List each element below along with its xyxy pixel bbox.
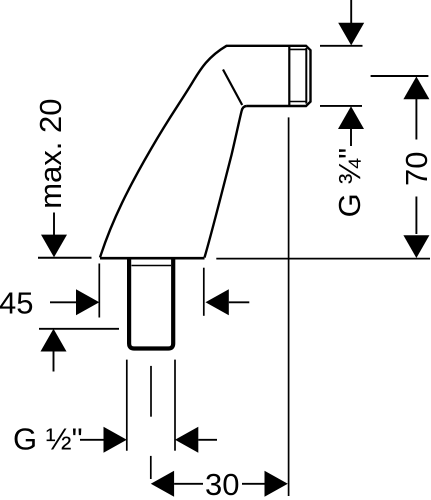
45 right leader line — [229, 301, 250, 303]
G 3/4 bottom dimension line — [320, 105, 362, 107]
spout crease line — [223, 70, 242, 106]
connector thread root bottom — [289, 101, 306, 103]
45 left arrowhead from right side — [206, 289, 229, 315]
spout neck right edge — [205, 106, 247, 258]
30 right stem — [242, 483, 265, 485]
base line of spout — [100, 257, 205, 260]
G 3/4 down arrowhead — [338, 23, 364, 46]
shank thread extension right — [174, 360, 176, 451]
max. 20 lower dimension line — [39, 328, 119, 330]
30 right arrowhead — [265, 471, 288, 497]
shank thread extension left — [126, 360, 128, 451]
70 up arrowhead — [403, 77, 429, 100]
shank centerline lower — [150, 456, 152, 479]
70 down arrowhead — [403, 235, 429, 258]
G 1/2 right leader — [198, 439, 217, 441]
svg-text:45: 45 — [0, 286, 33, 321]
G 1/2 right arrowhead — [175, 427, 198, 453]
spout body outer outline — [100, 46, 311, 258]
70 upper stem — [415, 99, 417, 140]
30 left arrowhead — [151, 471, 174, 497]
connector thread root top — [289, 48, 306, 50]
G 3/4 top dimension line — [320, 45, 363, 47]
connector chamfer base line — [305, 48, 307, 104]
shank top inner line — [132, 265, 172, 267]
45 right extension line — [203, 268, 205, 316]
G 1/2 left leader — [80, 439, 105, 441]
base extension line right — [216, 258, 430, 260]
max. 20 up arrowhead — [41, 329, 67, 352]
max. 20 down arrowhead — [41, 235, 67, 258]
G 3/4 top arrow stem — [350, 0, 352, 24]
G 3/4 bottom arrow stem — [350, 129, 352, 147]
max. 20 upper arrow stem — [53, 213, 55, 237]
30 left stem — [174, 483, 203, 485]
70 lower stem — [415, 197, 417, 235]
G 3/4 up arrowhead — [338, 106, 364, 129]
45 right arrowhead — [76, 289, 99, 315]
svg-text:max. 20: max. 20 — [33, 99, 68, 209]
max. 20 lower arrow stem — [53, 351, 55, 372]
70 top dimension line — [371, 75, 429, 77]
svg-text:30: 30 — [205, 467, 239, 500]
svg-text:G ½": G ½" — [13, 422, 83, 457]
svg-text:G ¾": G ¾" — [332, 148, 367, 218]
45 leader line — [50, 301, 77, 303]
svg-text:70: 70 — [399, 152, 431, 186]
45 extension line — [98, 264, 100, 318]
base extension line left — [38, 257, 92, 259]
shank centerline upper — [150, 366, 152, 417]
head shoulder line — [288, 46, 290, 107]
G 1/2 left arrowhead — [104, 427, 127, 453]
shank outline — [129, 259, 173, 349]
30 extension line from outlet face — [288, 117, 290, 496]
